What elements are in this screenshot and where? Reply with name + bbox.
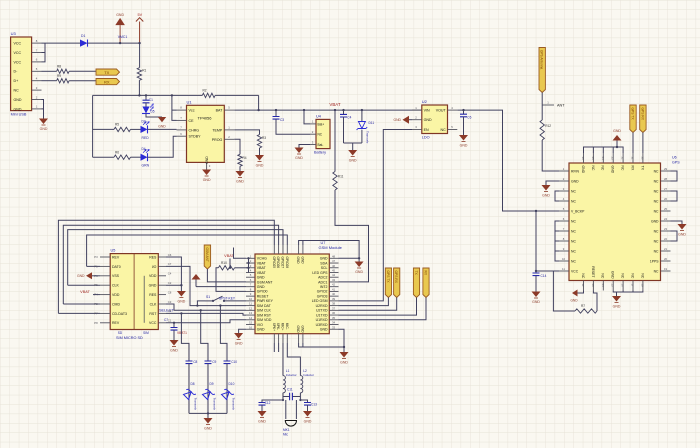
svg-text:VBAT: VBAT xyxy=(257,266,267,270)
wire SD CLK to SIM CLK xyxy=(166,304,246,310)
svg-text:44: 44 xyxy=(332,273,336,277)
svg-text:R11: R11 xyxy=(338,175,344,179)
svg-text:GPIO3: GPIO3 xyxy=(317,294,328,298)
svg-text:R8: R8 xyxy=(57,65,61,69)
wire MIC- to L2 xyxy=(287,343,300,376)
port GPS TX mid xyxy=(385,268,391,298)
svg-text:VBAT: VBAT xyxy=(329,102,340,107)
svg-text:SPST-KEY: SPST-KEY xyxy=(219,296,236,300)
svg-text:Inductor: Inductor xyxy=(286,373,297,377)
svg-text:NC: NC xyxy=(571,189,576,193)
svg-text:12: 12 xyxy=(581,283,585,287)
wire GPS bottom GND bar xyxy=(613,291,643,297)
svg-text:U3RXD: U3RXD xyxy=(316,323,328,327)
wire C4 D11 join to ground xyxy=(344,143,362,150)
svg-text:C7: C7 xyxy=(168,262,172,266)
svg-text:Mic: Mic xyxy=(283,433,288,437)
ground R4 xyxy=(236,171,245,178)
port RX xyxy=(96,79,120,85)
svg-text:U3: U3 xyxy=(11,31,17,36)
svg-text:NC: NC xyxy=(654,189,659,193)
svg-text:15: 15 xyxy=(611,283,615,287)
ground SD right xyxy=(177,291,186,298)
svg-text:VBAT: VBAT xyxy=(224,254,234,258)
svg-text:LED GPS: LED GPS xyxy=(312,271,328,275)
svg-text:GPIO25: GPIO25 xyxy=(272,257,276,269)
wire GSM row16 GND xyxy=(239,329,246,333)
svg-text:SIM DAT: SIM DAT xyxy=(257,304,272,308)
svg-text:45: 45 xyxy=(332,268,336,272)
svg-text:41: 41 xyxy=(332,287,336,291)
svg-text:VBAT: VBAT xyxy=(257,271,267,275)
svg-text:GND: GND xyxy=(257,276,265,280)
svg-text:STDBY: STDBY xyxy=(189,135,202,139)
svg-text:SDA: SDA xyxy=(320,261,328,265)
svg-text:GND: GND xyxy=(611,166,615,174)
svg-text:GND: GND xyxy=(296,326,300,334)
wire SD RES/GND to ground xyxy=(166,257,181,291)
wire R11 to ADC1 xyxy=(335,190,369,282)
diode D11 Transorb xyxy=(361,109,363,111)
svg-text:GND: GND xyxy=(611,271,615,279)
svg-text:SELECT: SELECT xyxy=(159,308,174,312)
svg-text:37: 37 xyxy=(332,306,336,310)
svg-text:25: 25 xyxy=(664,207,668,211)
svg-text:GND: GND xyxy=(235,342,243,346)
svg-text:Vcc: Vcc xyxy=(189,109,195,113)
svg-text:V_BCKP: V_BCKP xyxy=(571,209,585,213)
svg-text:C6: C6 xyxy=(467,115,471,119)
svg-text:GND: GND xyxy=(295,156,303,160)
wire R10 left to GPIO0 row xyxy=(216,268,246,292)
ground battery xyxy=(295,148,304,155)
svg-text:GND: GND xyxy=(116,13,124,17)
svg-text:R12: R12 xyxy=(545,124,551,128)
capacitor C6 xyxy=(462,109,464,111)
capacitor C7 under SD xyxy=(173,323,175,328)
svg-text:PWR KEY: PWR KEY xyxy=(257,299,274,303)
svg-text:29: 29 xyxy=(664,167,668,171)
svg-text:RED: RED xyxy=(142,136,150,140)
wire transorb bank join xyxy=(189,413,227,418)
resistor R8 on D- line xyxy=(42,70,57,72)
svg-text:REV: REV xyxy=(112,321,120,325)
svg-text:GND: GND xyxy=(320,328,328,332)
wire GPS pin24 ground xyxy=(671,221,683,224)
ground GPS pin2 xyxy=(542,185,551,192)
svg-text:GND: GND xyxy=(300,326,304,334)
wire bus ends into SD pins xyxy=(58,266,100,313)
svg-text:GPIO0: GPIO0 xyxy=(257,290,268,294)
svg-text:C9: C9 xyxy=(212,360,216,364)
ground C4/D11 xyxy=(348,150,357,157)
capacitor C13 xyxy=(300,400,307,402)
svg-text:GND: GND xyxy=(257,328,265,332)
wire diode to 5V junction xyxy=(88,42,140,44)
port GPS RX mid xyxy=(394,268,400,298)
svg-text:NC: NC xyxy=(571,249,576,253)
svg-text:Bat-: Bat- xyxy=(318,143,324,147)
IC U1 TP4056 xyxy=(187,105,225,162)
svg-text:27: 27 xyxy=(664,187,668,191)
wire SD VCC to SIM VDD xyxy=(166,320,246,323)
ground R3 xyxy=(255,155,264,162)
wire Bat- to ground xyxy=(299,145,310,148)
svg-text:NC: NC xyxy=(654,199,659,203)
svg-text:GPS RX: GPS RX xyxy=(640,108,644,121)
svg-text:D11: D11 xyxy=(369,121,375,125)
svg-text:CLK: CLK xyxy=(112,284,119,288)
svg-text:D8: D8 xyxy=(191,382,195,386)
svg-text:C1: C1 xyxy=(168,319,172,323)
port TX mid xyxy=(413,268,419,298)
ground U2 GND pin xyxy=(403,116,410,124)
capacitor C4 xyxy=(342,109,344,111)
wire to STDBY pin xyxy=(148,136,177,157)
svg-text:48: 48 xyxy=(332,254,336,258)
ground up arrow GSM GND row7 xyxy=(196,280,246,287)
svg-text:TEMP: TEMP xyxy=(212,128,223,132)
svg-text:D10: D10 xyxy=(229,382,235,386)
svg-text:DAT0: DAT0 xyxy=(112,265,121,269)
wire bus SD DAT0 to GPIO28 xyxy=(87,235,288,266)
LED D3 RED xyxy=(141,122,150,134)
svg-text:NC: NC xyxy=(654,179,659,183)
svg-text:GND: GND xyxy=(581,166,585,174)
svg-text:NC: NC xyxy=(621,166,625,171)
svg-text:P1: P1 xyxy=(94,264,98,268)
svg-text:SD: SD xyxy=(118,331,123,335)
svg-text:CMD: CMD xyxy=(112,302,120,306)
svg-text:NC: NC xyxy=(571,239,576,243)
svg-text:R10: R10 xyxy=(221,261,227,265)
svg-text:Battery: Battery xyxy=(314,151,326,155)
svg-text:U5: U5 xyxy=(111,249,116,253)
svg-text:RESET: RESET xyxy=(591,266,595,277)
svg-text:NC: NC xyxy=(581,273,585,278)
svg-text:47: 47 xyxy=(332,259,336,263)
svg-text:C10: C10 xyxy=(231,360,237,364)
svg-text:16: 16 xyxy=(249,325,253,329)
svg-text:NC: NC xyxy=(630,273,634,278)
svg-text:CLK: CLK xyxy=(150,302,157,306)
svg-text:RESET: RESET xyxy=(257,294,270,298)
svg-text:VDD: VDD xyxy=(112,293,120,297)
wire TX port to U1TXD xyxy=(339,298,417,316)
svg-text:GND: GND xyxy=(349,159,357,163)
capacitor C12 xyxy=(262,400,283,402)
svg-text:C13: C13 xyxy=(311,403,317,407)
power port 5V xyxy=(136,18,143,43)
port GPS Antenna xyxy=(539,48,545,93)
svg-text:NC: NC xyxy=(654,169,659,173)
svg-text:Transorb: Transorb xyxy=(213,398,217,411)
svg-text:40: 40 xyxy=(332,292,336,296)
svg-text:GPIO26: GPIO26 xyxy=(276,257,280,269)
svg-text:ADC2: ADC2 xyxy=(318,276,327,280)
svg-text:19: 19 xyxy=(664,267,668,271)
svg-text:LED GSM: LED GSM xyxy=(312,299,328,303)
svg-text:GPS Antenna: GPS Antenna xyxy=(540,50,544,70)
svg-text:GRN: GRN xyxy=(142,164,150,168)
svg-text:33: 33 xyxy=(332,325,336,329)
svg-text:17: 17 xyxy=(631,283,635,287)
svg-text:U2RXD: U2RXD xyxy=(316,304,328,308)
diode D10 Transorb xyxy=(220,387,233,400)
svg-text:28: 28 xyxy=(664,177,668,181)
svg-text:Transorb: Transorb xyxy=(232,398,236,411)
svg-text:MIC-: MIC- xyxy=(285,323,289,330)
svg-text:GND: GND xyxy=(613,129,621,133)
wire RX port to U1RXD xyxy=(339,298,427,320)
ground transorb bank xyxy=(204,418,213,425)
wire branch1 from SD RST xyxy=(181,313,189,357)
ground C6 xyxy=(459,135,468,142)
svg-text:GPIO2: GPIO2 xyxy=(317,290,328,294)
svg-text:NC: NC xyxy=(440,128,446,132)
port TX xyxy=(96,69,120,75)
ground GSM right row1 xyxy=(358,257,360,259)
svg-text:33: 33 xyxy=(611,156,615,160)
svg-text:C1: C1 xyxy=(149,98,153,102)
port GPS TX xyxy=(630,105,636,133)
wire bus SD CMD to GPIO26 xyxy=(63,225,278,304)
svg-text:NC: NC xyxy=(654,209,659,213)
svg-text:35: 35 xyxy=(591,156,595,160)
svg-text:GND: GND xyxy=(678,233,686,237)
svg-text:42: 42 xyxy=(332,283,336,287)
svg-text:BAT: BAT xyxy=(216,109,224,113)
ground GPS top xyxy=(613,135,622,141)
svg-text:GND: GND xyxy=(300,257,304,265)
svg-text:GND: GND xyxy=(14,107,22,111)
svg-text:36: 36 xyxy=(581,156,585,160)
svg-text:26: 26 xyxy=(664,197,668,201)
wire GPS NC bracket pins6-10 xyxy=(555,221,559,261)
svg-text:D9: D9 xyxy=(210,382,214,386)
svg-text:ANT: ANT xyxy=(557,104,565,108)
wire VBAT bundle vertical xyxy=(234,248,249,273)
svg-text:VBAT: VBAT xyxy=(257,261,267,265)
port GPS RX xyxy=(640,105,646,133)
wire VBAT rail xyxy=(234,109,421,111)
svg-text:35: 35 xyxy=(332,316,336,320)
svg-text:GND: GND xyxy=(296,257,300,265)
svg-text:GSM Module: GSM Module xyxy=(319,245,343,250)
IC U2 LDO xyxy=(422,105,448,134)
svg-text:43: 43 xyxy=(332,278,336,282)
svg-text:VCC: VCC xyxy=(14,42,22,46)
svg-text:U4: U4 xyxy=(316,115,321,119)
svg-text:P8: P8 xyxy=(94,321,98,325)
svg-text:NC: NC xyxy=(640,273,644,278)
svg-text:GND: GND xyxy=(542,194,550,198)
svg-text:MIC+: MIC+ xyxy=(281,323,285,331)
connector U3 Mini USB xyxy=(11,37,32,111)
svg-text:22: 22 xyxy=(664,237,668,241)
capacitor C11 xyxy=(283,396,300,398)
svg-text:46: 46 xyxy=(332,264,336,268)
wire MIC+ to L1 xyxy=(282,343,284,376)
svg-text:GND: GND xyxy=(304,420,312,424)
svg-text:D5: D5 xyxy=(151,110,155,114)
svg-text:U7: U7 xyxy=(321,241,326,245)
wire bus SD CLK to GPIO27 xyxy=(68,230,283,286)
svg-text:GPIO27: GPIO27 xyxy=(281,257,285,269)
svg-text:GND: GND xyxy=(613,305,621,309)
svg-text:VIN: VIN xyxy=(424,109,430,113)
svg-text:D+: D+ xyxy=(14,79,19,83)
wire GPS pin2 ground xyxy=(546,181,559,185)
ground GPS bottom xyxy=(612,296,621,303)
svg-text:RST: RST xyxy=(149,312,157,316)
svg-text:GPIO28: GPIO28 xyxy=(285,257,289,269)
svg-text:RES: RES xyxy=(149,255,157,259)
svg-text:VCC: VCC xyxy=(571,269,579,273)
svg-text:EN: EN xyxy=(424,128,429,132)
svg-text:16: 16 xyxy=(621,283,625,287)
svg-text:P3: P3 xyxy=(94,255,98,259)
ground GSM row16 xyxy=(234,333,243,340)
ground USB xyxy=(39,119,48,126)
connector U4 Battery xyxy=(316,119,330,148)
svg-text:GND: GND xyxy=(170,349,178,353)
wire GPS top GND bar xyxy=(584,141,624,154)
diode D9 Transorb xyxy=(201,387,214,400)
wire branch2 from SIM CLK xyxy=(201,310,208,357)
svg-text:GND: GND xyxy=(40,127,48,131)
capacitor C3 xyxy=(275,109,277,111)
wire GSM ANT port to pin xyxy=(207,269,246,282)
svg-text:GND: GND xyxy=(204,427,212,431)
svg-text:VOUT: VOUT xyxy=(436,109,447,113)
svg-text:P5: P5 xyxy=(94,283,98,287)
inductor L2 xyxy=(300,376,302,393)
svg-text:NC: NC xyxy=(571,199,576,203)
svg-text:CD-DAT3: CD-DAT3 xyxy=(112,312,127,316)
wire SIM DAT row xyxy=(196,305,198,307)
ground C13 xyxy=(303,411,312,418)
svg-text:TX: TX xyxy=(640,166,644,171)
wire branch3 from SIM DAT xyxy=(220,306,227,357)
svg-text:14: 14 xyxy=(601,283,605,287)
resistor R12 xyxy=(541,105,543,120)
pin GND of U1 xyxy=(206,162,208,169)
svg-text:18: 18 xyxy=(640,283,644,287)
wire GPS right NC brackets xyxy=(671,171,678,241)
svg-text:C14: C14 xyxy=(541,274,547,278)
svg-text:GND: GND xyxy=(14,98,22,102)
svg-text:REV: REV xyxy=(112,255,120,259)
svg-text:CE: CE xyxy=(189,119,195,123)
svg-text:Transorb: Transorb xyxy=(366,131,370,144)
svg-text:C8: C8 xyxy=(193,360,197,364)
svg-text:31: 31 xyxy=(631,156,635,160)
svg-text:13: 13 xyxy=(249,311,253,315)
svg-text:12: 12 xyxy=(249,306,253,310)
net label VBAT at SD VDD xyxy=(93,294,100,296)
svg-text:Inductor: Inductor xyxy=(303,373,314,377)
svg-text:R4: R4 xyxy=(243,156,247,160)
capacitor C10 xyxy=(226,357,228,361)
resistor R5 xyxy=(93,128,114,130)
svg-text:RX: RX xyxy=(423,271,427,276)
wire antenna to ANT node xyxy=(541,93,543,106)
svg-text:U2: U2 xyxy=(422,99,428,104)
svg-text:20: 20 xyxy=(664,257,668,261)
resistor R4 on PROG xyxy=(234,139,240,154)
svg-text:NC: NC xyxy=(571,229,576,233)
svg-text:24: 24 xyxy=(664,217,668,221)
svg-text:VMC1: VMC1 xyxy=(118,35,128,39)
svg-text:U6: U6 xyxy=(672,156,677,160)
svg-text:NC: NC xyxy=(571,259,576,263)
resistor R6 xyxy=(93,156,114,158)
svg-text:R7: R7 xyxy=(581,304,585,308)
port RX mid xyxy=(423,268,429,298)
svg-text:15: 15 xyxy=(249,321,253,325)
svg-text:VIO: VIO xyxy=(257,323,263,327)
svg-text:P7: P7 xyxy=(94,311,98,315)
LED D4 GRN xyxy=(141,150,150,162)
svg-text:14: 14 xyxy=(249,316,253,320)
svg-text:C6: C6 xyxy=(168,253,172,257)
svg-text:GND: GND xyxy=(158,124,166,128)
wire bus SD CD-DAT3 to GPIO25 xyxy=(58,220,274,313)
svg-text:TP4056: TP4056 xyxy=(198,116,213,121)
IC U7 GSM Module xyxy=(255,254,329,334)
svg-text:SIM RST: SIM RST xyxy=(257,313,272,317)
svg-text:U1: U1 xyxy=(187,99,193,104)
svg-text:36: 36 xyxy=(332,311,336,315)
wire SD I/O to switch net xyxy=(166,266,205,305)
LED D5 power indicator xyxy=(142,104,153,114)
wire GPS TX port to U2RXD xyxy=(339,298,389,306)
svg-text:GND: GND xyxy=(256,164,264,168)
resistor R9 on D+ line xyxy=(42,80,57,82)
svg-text:SCL: SCL xyxy=(321,266,328,270)
svg-text:VBAT1: VBAT1 xyxy=(177,331,187,335)
svg-text:R3: R3 xyxy=(262,136,266,140)
svg-text:C3: C3 xyxy=(280,118,284,122)
wire L bottoms xyxy=(283,393,300,400)
svg-text:C4: C4 xyxy=(347,116,351,120)
svg-text:VDD: VDD xyxy=(149,274,157,278)
svg-text:NC: NC xyxy=(654,249,659,253)
svg-text:NC: NC xyxy=(591,166,595,171)
svg-text:GND: GND xyxy=(205,156,209,164)
resistor R10 xyxy=(218,266,234,270)
wire GPS TX RX ports to pins xyxy=(633,133,643,154)
svg-text:SIM CLK: SIM CLK xyxy=(257,309,272,313)
svg-text:GND: GND xyxy=(178,300,186,304)
wire horizontal rail y95.4 xyxy=(93,94,259,96)
svg-text:GND: GND xyxy=(532,300,540,304)
svg-text:38: 38 xyxy=(332,302,336,306)
ground C12 xyxy=(258,411,267,418)
svg-text:GND: GND xyxy=(570,299,578,303)
svg-text:MK1: MK1 xyxy=(283,428,290,432)
wire R12 to RFIN xyxy=(542,140,559,171)
svg-text:GPS RX: GPS RX xyxy=(394,271,398,284)
svg-text:GSM ANT: GSM ANT xyxy=(257,280,274,284)
wire LED feed vertical xyxy=(92,95,94,157)
IC U6 GPS module xyxy=(569,163,661,281)
node ANT xyxy=(542,104,554,106)
inductor L1 xyxy=(283,376,285,393)
wire V_BCKP/VCC branch xyxy=(535,210,537,212)
svg-text:RFIN: RFIN xyxy=(571,169,579,173)
